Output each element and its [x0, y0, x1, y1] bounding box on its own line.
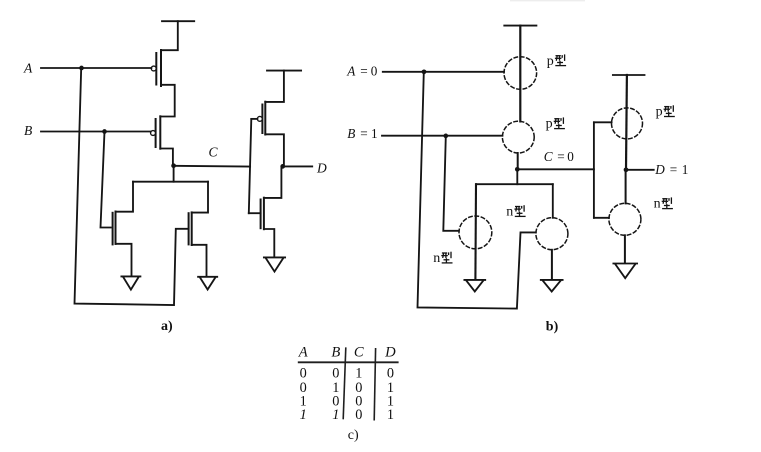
wire node C down to rail	[516, 169, 518, 184]
wire node D output	[626, 169, 654, 171]
node dot D (part b)	[624, 167, 629, 172]
wire VDD through T5 to node D	[625, 75, 628, 170]
wire rail to T4 top	[552, 184, 554, 218]
transistor T1 p-type dashed circle	[504, 57, 537, 90]
svg-text:B=1: B=1	[347, 126, 377, 141]
svg-text:D: D	[316, 161, 327, 176]
ground G3	[264, 257, 285, 271]
pmos Q1 gate bar	[155, 53, 157, 85]
wire inverter gate vertical (part b)	[593, 122, 595, 218]
svg-text:A: A	[298, 345, 308, 361]
wire B junction down to Q3 gate	[101, 132, 111, 228]
wire node C to inverter gate	[174, 165, 251, 168]
ground G6	[613, 264, 637, 279]
svg-text:B: B	[24, 123, 32, 138]
transistor T6 n-type dashed circle	[609, 203, 641, 235]
svg-text:D=1: D=1	[654, 162, 688, 177]
svg-text:p: p	[546, 117, 553, 132]
wire node D down to T6 top	[625, 170, 627, 204]
svg-text:A=0: A=0	[346, 63, 377, 78]
wire node C to inverter gate	[517, 168, 594, 170]
VDD bar (part a NOR)	[162, 20, 194, 22]
pmos Q1 channel bar	[160, 50, 162, 86]
svg-text:p: p	[656, 105, 663, 120]
node dot A (part a)	[79, 66, 84, 71]
wire T4 bottom to ground	[551, 250, 553, 280]
svg-text:1: 1	[332, 407, 339, 423]
VDD bar (part a inverter)	[267, 70, 301, 72]
pmos Q2 bubble	[151, 131, 156, 136]
svg-text:b): b)	[546, 320, 559, 335]
nmos Q4 gate bar	[188, 213, 190, 244]
svg-text:n: n	[433, 251, 440, 266]
wire VDD to Q1 drain	[161, 21, 178, 50]
pmos Q5 channel bar	[264, 102, 266, 135]
table horizontal rule	[298, 361, 399, 363]
nmos Q6 channel bar	[263, 198, 265, 230]
transistor T2 p-type dashed circle	[502, 121, 534, 153]
pmos Q2 gate bar	[155, 119, 157, 147]
node dot C (part b)	[515, 167, 520, 172]
svg-text:p: p	[547, 54, 554, 69]
wire node D output	[283, 165, 313, 167]
node dot B (part a)	[102, 129, 107, 134]
wire input B	[382, 135, 502, 137]
nmos Q4 channel bar	[191, 212, 193, 245]
nmos Q6 gate bar	[260, 200, 262, 229]
wire node D down to Q6 drain	[264, 166, 282, 198]
wire gate hook to T6	[594, 217, 609, 219]
wire rail to Q4 drain	[192, 182, 208, 213]
svg-text:D: D	[384, 345, 396, 361]
transistor T5 p-type dashed circle	[612, 108, 643, 139]
wire T6 bottom to ground	[624, 235, 626, 263]
svg-text:A: A	[23, 61, 33, 76]
scan smudge top	[510, 0, 585, 1]
wire node C down to nmos rail	[173, 166, 175, 182]
pmos Q5 bubble	[257, 116, 262, 121]
wire input B	[41, 131, 151, 133]
wire A junction down, along bottom, up to Q4 gate	[75, 68, 189, 305]
svg-text:a): a)	[161, 319, 173, 334]
wire VDD through T1 to T2 top	[519, 26, 521, 122]
ground G1	[121, 276, 140, 289]
table vertical rule 2	[374, 348, 375, 421]
svg-text:1: 1	[387, 407, 394, 423]
wire Q5 source to node D	[265, 134, 284, 166]
wire rail through T3 to ground	[474, 184, 477, 280]
wire input A	[41, 67, 151, 69]
node dot D (part a)	[280, 164, 285, 169]
VDD bar (part b inverter)	[613, 74, 645, 76]
ground G4	[464, 280, 485, 292]
wire gate hook to Q5 bubble	[251, 118, 257, 120]
wire B junction down to T3 gate	[443, 136, 459, 231]
svg-text:C=0: C=0	[544, 149, 574, 164]
wire gate hook to T5	[594, 121, 612, 123]
wire inverter gate vertical	[249, 119, 252, 213]
VDD bar (part b NOR)	[504, 25, 536, 27]
node dot A (part b)	[422, 69, 427, 74]
ground G5	[541, 280, 563, 292]
node dot B (part b)	[443, 134, 448, 139]
transistor T3 n-type dashed circle	[459, 216, 492, 249]
transistor T4 n-type dashed circle	[536, 218, 568, 250]
table vertical rule 1	[343, 347, 346, 419]
svg-text:0: 0	[355, 407, 362, 423]
pmos Q1 bubble	[151, 66, 156, 71]
svg-text:n: n	[654, 197, 661, 212]
svg-text:C: C	[354, 345, 364, 361]
svg-text:1: 1	[300, 407, 307, 423]
wire nmos drain rail	[133, 181, 208, 183]
wire Q6 source to ground	[264, 229, 274, 257]
wire input A	[383, 71, 504, 73]
nmos Q3 gate bar	[112, 213, 114, 245]
wire Q1 source to Q2 drain	[160, 85, 174, 117]
wire rail to Q3 drain	[116, 182, 134, 212]
pmos Q5 gate bar	[261, 105, 263, 134]
wire gate hook to Q6	[249, 212, 261, 214]
wire T2 bottom to node C	[517, 153, 519, 169]
svg-text:c): c)	[348, 428, 359, 443]
wire VDD to Q5 drain	[265, 71, 284, 102]
wire Q4 source to ground	[192, 245, 207, 277]
wire Q2 source to node C	[160, 149, 173, 166]
svg-text:n: n	[506, 204, 513, 219]
nmos Q3 channel bar	[115, 212, 117, 244]
svg-text:C: C	[209, 144, 219, 159]
node dot C (part a)	[171, 163, 176, 168]
svg-text:B: B	[331, 345, 340, 361]
wire nmos drain rail (part b)	[476, 183, 552, 185]
wire A junction down, along bottom, up to T4 gate	[418, 72, 536, 309]
ground G2	[198, 277, 217, 290]
pmos Q2 channel bar	[159, 116, 161, 148]
wire Q3 source to ground	[116, 244, 132, 276]
